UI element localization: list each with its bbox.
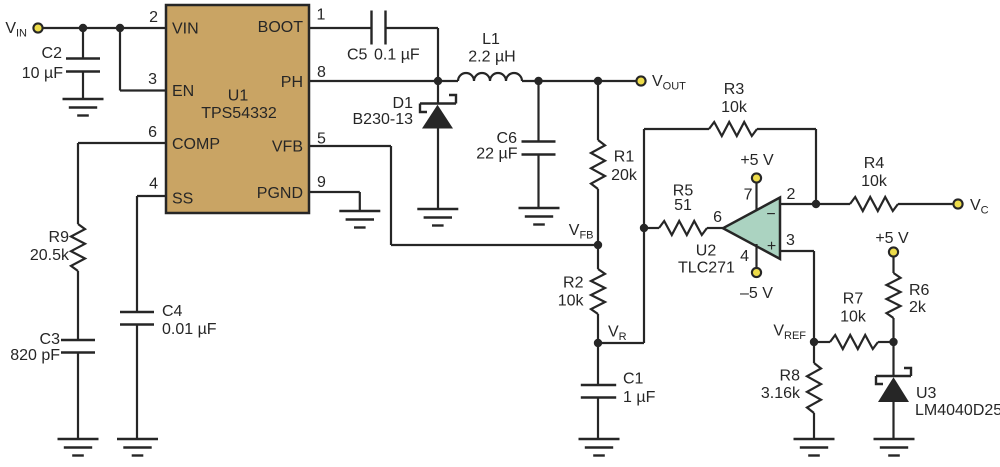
label R3 value bbox=[721, 81, 748, 116]
node VREF junction bbox=[773, 323, 818, 347]
pin number 9 bbox=[317, 174, 326, 191]
svg-text:U1: U1 bbox=[228, 88, 249, 105]
junction L1/C6 bbox=[534, 77, 542, 85]
svg-text:R3: R3 bbox=[724, 81, 745, 98]
svg-text:R6: R6 bbox=[909, 282, 930, 299]
label R6 value bbox=[909, 282, 930, 316]
svg-text:C5: C5 bbox=[347, 47, 368, 64]
pin name PGND bbox=[257, 185, 303, 202]
resistor R5 bbox=[644, 221, 723, 235]
wire R3 to pin2 node bbox=[757, 129, 816, 204]
wire L1 to VOUT bbox=[522, 80, 636, 82]
label D1 value bbox=[353, 95, 414, 128]
wire opamp V- supply bbox=[755, 244, 757, 268]
pin number 4 bbox=[149, 176, 158, 193]
svg-text:8: 8 bbox=[317, 64, 326, 81]
pin number 1 bbox=[317, 7, 326, 24]
pin number 7 opamp bbox=[744, 187, 753, 204]
pin name PH bbox=[281, 74, 303, 91]
svg-text:VR: VR bbox=[608, 324, 627, 344]
svg-text:VOUT: VOUT bbox=[652, 73, 686, 93]
pin name SS bbox=[172, 191, 193, 208]
svg-text:LM4040D25: LM4040D25 bbox=[915, 402, 1000, 419]
inductor L1 bbox=[458, 73, 522, 81]
svg-text:820 pF: 820 pF bbox=[10, 347, 60, 364]
svg-text:−: − bbox=[766, 206, 775, 223]
svg-text:L1: L1 bbox=[482, 31, 500, 48]
label C2 value bbox=[22, 45, 63, 82]
svg-text:+: + bbox=[767, 238, 776, 255]
ground under C3 bbox=[58, 439, 99, 456]
label R8 value bbox=[761, 368, 801, 403]
svg-text:51: 51 bbox=[674, 197, 692, 214]
svg-text:TPS54332: TPS54332 bbox=[201, 105, 277, 122]
label R2 value bbox=[558, 275, 585, 310]
svg-text:2: 2 bbox=[787, 186, 796, 203]
ground under U3 bbox=[874, 439, 915, 456]
junction VIN/EN bbox=[116, 24, 124, 32]
pin name VFB bbox=[272, 139, 303, 156]
svg-text:PH: PH bbox=[281, 74, 303, 91]
svg-text:C1: C1 bbox=[623, 371, 644, 388]
svg-text:+5 V: +5 V bbox=[740, 152, 774, 169]
ground under C2 bbox=[63, 99, 104, 116]
junction VOUT/R1 bbox=[594, 77, 602, 85]
wire VFB to R2 bbox=[597, 245, 599, 269]
pin name VIN bbox=[172, 21, 199, 38]
svg-text:D1: D1 bbox=[393, 95, 414, 112]
label C5 value bbox=[347, 47, 420, 64]
label U3 value bbox=[915, 385, 1000, 419]
diode D1 B230-13 bbox=[420, 81, 456, 209]
wire opamp V+ supply bbox=[755, 183, 757, 212]
pin number 6 opamp bbox=[713, 209, 722, 226]
capacitor C2 bbox=[66, 28, 100, 99]
label R4 value bbox=[861, 155, 888, 190]
svg-text:R2: R2 bbox=[563, 275, 584, 292]
capacitor C3 bbox=[61, 340, 95, 439]
svg-text:10k: 10k bbox=[840, 309, 867, 326]
wire EN branch bbox=[120, 28, 166, 91]
svg-text:EN: EN bbox=[172, 83, 194, 100]
pin name EN bbox=[172, 83, 194, 100]
label R9 value bbox=[30, 229, 70, 264]
svg-text:R4: R4 bbox=[864, 155, 885, 172]
svg-text:9: 9 bbox=[317, 174, 326, 191]
svg-text:R1: R1 bbox=[614, 149, 635, 166]
pin number 3 opamp bbox=[786, 232, 795, 249]
resistor R1 bbox=[591, 140, 605, 189]
svg-text:–5 V: –5 V bbox=[740, 285, 773, 302]
svg-text:0.01 µF: 0.01 µF bbox=[162, 321, 217, 338]
op-amp U2 TLC271 bbox=[723, 198, 780, 259]
pin number 5 bbox=[317, 131, 326, 148]
pin name BOOT bbox=[258, 19, 304, 36]
svg-text:TLC271: TLC271 bbox=[678, 260, 735, 277]
ground under D1 bbox=[417, 209, 458, 226]
svg-text:R7: R7 bbox=[843, 291, 864, 308]
svg-text:10k: 10k bbox=[721, 99, 748, 116]
svg-text:C3: C3 bbox=[40, 331, 61, 348]
node +5V opamp terminal bbox=[740, 152, 774, 183]
svg-text:C4: C4 bbox=[162, 303, 183, 320]
svg-text:4: 4 bbox=[149, 176, 158, 193]
junction R3/pin2 bbox=[812, 200, 820, 208]
svg-text:C6: C6 bbox=[497, 130, 518, 147]
svg-text:7: 7 bbox=[744, 187, 753, 204]
node VIN input terminal bbox=[5, 20, 42, 40]
svg-text:2k: 2k bbox=[909, 299, 927, 316]
svg-text:3: 3 bbox=[786, 232, 795, 249]
wire VOUT to R1 bbox=[597, 81, 599, 140]
svg-text:10k: 10k bbox=[861, 173, 888, 190]
resistor R3 bbox=[709, 122, 757, 136]
pin number 6 bbox=[148, 124, 157, 141]
label L1 value bbox=[468, 31, 515, 66]
label R5 value bbox=[673, 183, 694, 215]
svg-text:6: 6 bbox=[713, 209, 722, 226]
pin name COMP bbox=[172, 136, 220, 153]
node VR junction bbox=[594, 324, 627, 348]
label R7 value bbox=[840, 291, 867, 326]
node VC terminal bbox=[953, 197, 988, 217]
svg-text:20.5k: 20.5k bbox=[30, 247, 70, 264]
svg-text:3: 3 bbox=[148, 71, 157, 88]
wire R1 to VFB node bbox=[597, 189, 599, 245]
svg-text:20k: 20k bbox=[611, 167, 638, 184]
resistor R8 bbox=[807, 342, 821, 439]
capacitor C4 bbox=[120, 312, 154, 439]
pin number 2 opamp bbox=[787, 186, 796, 203]
svg-text:R9: R9 bbox=[49, 229, 70, 246]
junction VIN/C2 bbox=[79, 24, 87, 32]
wire SS to C4 bbox=[137, 196, 166, 312]
pin number 3 bbox=[148, 71, 157, 88]
wire PGND to ground bbox=[309, 192, 360, 211]
svg-text:PGND: PGND bbox=[257, 185, 303, 202]
svg-text:COMP: COMP bbox=[172, 136, 220, 153]
wire VR to opamp node bbox=[598, 228, 644, 343]
svg-text:SS: SS bbox=[172, 191, 193, 208]
svg-text:10 µF: 10 µF bbox=[22, 65, 63, 82]
label C1 value bbox=[623, 371, 656, 407]
svg-text:VIN: VIN bbox=[172, 21, 199, 38]
wire PH to L1 bbox=[309, 80, 458, 82]
wire node to R3 bbox=[644, 129, 709, 228]
label C4 value bbox=[162, 303, 217, 338]
wire VFB pin routing bbox=[309, 146, 598, 245]
wire pin2 to R4 bbox=[781, 203, 850, 205]
wire BOOT to C5 bbox=[309, 27, 371, 29]
svg-text:0.1 µF: 0.1 µF bbox=[374, 47, 420, 64]
ground under C6 bbox=[519, 208, 560, 225]
wire C5 to PH node bbox=[386, 28, 438, 81]
wire COMP to R9 bbox=[78, 143, 166, 224]
resistor R9 bbox=[71, 224, 85, 271]
ground under R8 bbox=[794, 439, 835, 456]
svg-text:R8: R8 bbox=[780, 368, 801, 385]
svg-text:+5 V: +5 V bbox=[875, 230, 909, 247]
node VFB junction bbox=[569, 222, 602, 249]
svg-text:2.2 µH: 2.2 µH bbox=[468, 49, 515, 66]
capacitor C1 bbox=[581, 343, 616, 439]
svg-text:VIN: VIN bbox=[5, 20, 27, 40]
pin number 8 bbox=[317, 64, 326, 81]
capacitor C6 bbox=[522, 81, 556, 208]
resistor R7 bbox=[814, 335, 894, 349]
node VOUT terminal bbox=[636, 73, 686, 93]
resistor R2 bbox=[591, 269, 605, 314]
label R1 value bbox=[611, 149, 638, 185]
svg-text:1: 1 bbox=[317, 7, 326, 24]
svg-text:C2: C2 bbox=[42, 45, 63, 62]
capacitor C5 bbox=[372, 11, 386, 45]
wire R4 to VC bbox=[898, 203, 954, 205]
svg-text:VC: VC bbox=[970, 197, 989, 217]
label C3 value bbox=[10, 331, 60, 364]
node -5V opamp terminal bbox=[740, 268, 773, 302]
ground under C1 bbox=[579, 439, 620, 456]
pin number 4 opamp bbox=[740, 248, 749, 265]
IC U1 TPS54332 body bbox=[166, 5, 309, 213]
wire R2 to VR node bbox=[597, 314, 599, 343]
label C6 value bbox=[476, 130, 517, 163]
shunt reference U3 LM4040D25 bbox=[876, 342, 911, 439]
svg-text:VFB: VFB bbox=[569, 222, 594, 242]
junction PH/D1/C5 bbox=[434, 77, 442, 85]
node +5V R6 terminal bbox=[875, 230, 909, 257]
svg-text:U3: U3 bbox=[916, 385, 937, 402]
ground under C4 bbox=[117, 439, 158, 456]
svg-text:U2: U2 bbox=[696, 243, 717, 260]
svg-text:6: 6 bbox=[148, 124, 157, 141]
wire R6 to junction bbox=[892, 318, 894, 342]
wire R9 to C3 bbox=[77, 271, 79, 340]
svg-text:1 µF: 1 µF bbox=[623, 389, 656, 406]
svg-text:3.16k: 3.16k bbox=[761, 385, 801, 402]
junction R6/R7/U3 bbox=[889, 338, 897, 346]
svg-text:BOOT: BOOT bbox=[258, 19, 304, 36]
svg-text:22 µF: 22 µF bbox=[476, 146, 517, 163]
label U2 value bbox=[678, 243, 735, 277]
resistor R4 bbox=[850, 197, 898, 211]
svg-text:B230-13: B230-13 bbox=[353, 111, 414, 128]
wire +5V to R6 bbox=[892, 256, 894, 273]
svg-text:10k: 10k bbox=[558, 293, 585, 310]
svg-text:VFB: VFB bbox=[272, 139, 303, 156]
svg-text:VREF: VREF bbox=[773, 323, 806, 343]
resistor R6 bbox=[887, 273, 901, 318]
svg-text:4: 4 bbox=[740, 248, 749, 265]
svg-text:2: 2 bbox=[149, 9, 158, 26]
ground under PGND bbox=[339, 211, 380, 228]
junction R5/R3 node bbox=[640, 224, 648, 232]
pin number 2 bbox=[149, 9, 158, 26]
wire pin3 to VREF bbox=[780, 251, 814, 342]
wire VIN rail to U1 pin 2 bbox=[43, 27, 166, 29]
